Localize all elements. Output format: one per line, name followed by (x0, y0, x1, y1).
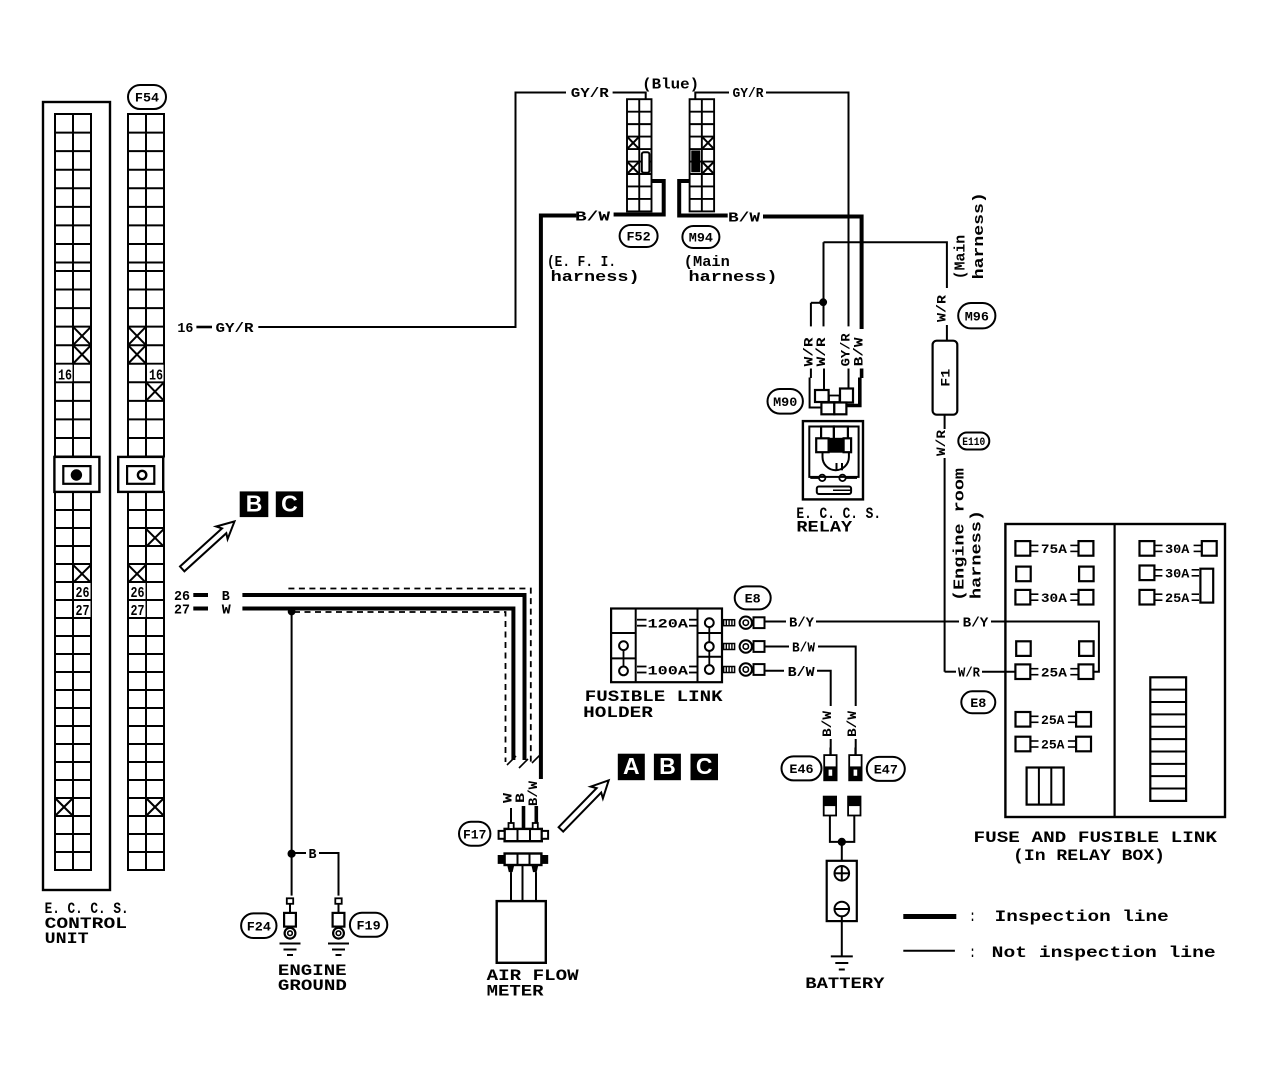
marker box A (618, 753, 644, 780)
fuse 25A (second) (1016, 712, 1092, 728)
E.C.C.S. control unit connector grid (55, 114, 91, 870)
caption Main harness rotated (right) (953, 192, 989, 279)
svg-text:27: 27 (76, 603, 90, 620)
terminal lug row 3 (B/W) (724, 663, 765, 675)
svg-text:30A: 30A (1041, 591, 1067, 606)
pin X marks (F52 left column) (627, 137, 639, 174)
fuse slots row2 left (1016, 567, 1093, 582)
pin X marks rows 3-4 left column (F54) (128, 327, 146, 364)
svg-text:GY/R: GY/R (571, 86, 610, 102)
fuse holder E46 (824, 748, 836, 781)
svg-text:(Engine room: (Engine room (952, 468, 969, 601)
air flow meter connector pins (507, 865, 538, 901)
fusible link 100A (637, 663, 698, 678)
label B (wire 26) (222, 589, 231, 605)
svg-text:B: B (246, 491, 263, 517)
wire B/W hook under F52 (inspection line) (614, 181, 664, 215)
svg-text:C: C (281, 491, 298, 517)
ECCS relay inner box (809, 427, 858, 477)
pin 27 label (control unit) (75, 601, 91, 620)
svg-text:B: B (659, 753, 676, 779)
E.C.C.S. control unit outer box (43, 102, 110, 890)
svg-text:(Blue): (Blue) (642, 77, 699, 94)
arrow to B C markers (180, 521, 235, 571)
air flow meter box (497, 901, 546, 963)
battery box (827, 861, 857, 921)
junction dot W/R bridge (820, 299, 827, 306)
label 27 (wire) (174, 603, 190, 619)
connector M90 bracket left (810, 378, 821, 408)
fusible link holder left column (611, 609, 636, 683)
svg-text:W: W (222, 603, 232, 619)
svg-text:W/R: W/R (935, 295, 950, 322)
marker box B (upper) (240, 491, 268, 517)
wire B/Y from holder (765, 621, 787, 623)
wire GY/R from pin16 up to F52 (258, 93, 566, 328)
svg-text:F19: F19 (357, 918, 381, 933)
connector E46 oval label (782, 756, 822, 780)
ECCS relay outer box (803, 421, 863, 499)
svg-text:harness): harness) (689, 269, 778, 286)
svg-text:W/R: W/R (958, 666, 981, 682)
svg-text:A: A (623, 753, 640, 779)
wire B/W down to E46 (817, 671, 831, 755)
connector F24 oval label (241, 913, 276, 938)
pin X marks rows 3-4 right column (control unit) (73, 327, 91, 364)
caption FUSE AND FUSIBLE LINK (In RELAY BOX) (974, 829, 1218, 865)
ECCS relay coil (823, 452, 849, 470)
wire W from pin27 (inspection line) (242, 609, 513, 761)
fusible link F1 (933, 341, 958, 415)
label B/W rotated (F17 pin) (526, 781, 541, 806)
label B/Y (789, 616, 815, 632)
connector below E46 (824, 797, 836, 816)
svg-text:B/W: B/W (575, 210, 611, 226)
svg-text:16: 16 (177, 321, 193, 337)
wire B/W row3 from holder (765, 670, 785, 672)
connector M94 grid (690, 99, 715, 211)
svg-text:B: B (309, 847, 318, 863)
label W rotated (F17 pin) (501, 793, 516, 803)
fusible link 120A (637, 617, 698, 632)
wire B/W hook under M94 (inspection line) (679, 181, 728, 216)
svg-text:W/R: W/R (814, 337, 829, 366)
F17 pin stubs (511, 806, 536, 829)
svg-text:METER: METER (487, 983, 544, 1001)
svg-text:M94: M94 (689, 231, 713, 246)
svg-text:B/Y: B/Y (789, 616, 815, 632)
svg-text:25A: 25A (1041, 713, 1065, 728)
battery negative terminal (835, 902, 850, 917)
connector E8 oval label (upper) (735, 586, 771, 609)
terminal lug row 2 (B/W) (724, 640, 765, 652)
pin X mark bottom right column (F54) (146, 798, 164, 816)
terminal lug row 1 (B/Y) (724, 617, 765, 629)
ECCS relay middle contacts (816, 438, 851, 452)
label W/R rotated (M90 pin1) (801, 337, 816, 366)
pin X mark (control unit, above pin 26) (73, 565, 91, 583)
svg-text:RELAY: RELAY (796, 519, 852, 537)
label W/R rotated (M90 pin2) (814, 337, 829, 366)
svg-text:harness): harness) (969, 510, 986, 599)
svg-text:100A: 100A (648, 663, 689, 678)
svg-text:F1: F1 (939, 368, 954, 386)
svg-text:GY/R: GY/R (216, 321, 255, 337)
label (Blue) (642, 77, 699, 94)
svg-text:120A: 120A (648, 617, 689, 632)
ECCS relay bottom bar (817, 487, 851, 495)
wire battery to ground (841, 916, 843, 956)
svg-text:E8: E8 (970, 696, 986, 711)
relay block connector (1027, 768, 1064, 805)
svg-text:Inspection line: Inspection line (995, 908, 1169, 926)
pin X marks (M94 right column) (702, 137, 714, 174)
svg-text:F54: F54 (135, 91, 159, 106)
ECCS relay contact circles (810, 475, 857, 481)
label GY/R (top right) (733, 86, 765, 102)
connector E8 oval label (lower) (961, 691, 995, 713)
svg-text:27: 27 (174, 603, 190, 619)
label 26 (wire) (174, 589, 190, 605)
connector M94 oval label (682, 226, 719, 248)
svg-text:25A: 25A (1041, 665, 1067, 680)
harness dashed outline outer (288, 589, 530, 764)
wire stubs into M90 connector (811, 369, 862, 391)
svg-text:B/W: B/W (526, 781, 541, 806)
fuse slots row4 left (1016, 641, 1093, 656)
label W/R rotated (below F1) (934, 430, 949, 456)
fuse holder E47 (849, 748, 861, 781)
svg-text:GROUND: GROUND (278, 977, 347, 995)
marker box C (upper) (276, 491, 302, 517)
pin 27 wire stub (193, 607, 208, 611)
svg-text::: : (970, 944, 976, 962)
wire GY/R from M94 down to ECCS relay (766, 93, 849, 327)
pin X mark left column (F54) (128, 565, 146, 583)
battery positive terminal (835, 866, 850, 881)
svg-text:B/Y: B/Y (963, 616, 989, 632)
pin 26 label (control unit) (75, 583, 91, 602)
junction dot engine ground (288, 850, 295, 857)
svg-text:(Main: (Main (953, 235, 970, 279)
label B rotated (F17 pin) (513, 793, 528, 803)
legend inspection line sample (903, 914, 956, 919)
fuse 75A (1015, 541, 1093, 557)
wire W/R into fuse box (982, 671, 1015, 673)
fuse 25A (right half) (1140, 590, 1200, 606)
connector M96 oval label (958, 303, 995, 328)
svg-text:B/W: B/W (851, 337, 866, 366)
air flow meter connector body (498, 854, 548, 866)
svg-text:harness): harness) (971, 192, 988, 279)
svg-text:C: C (696, 753, 713, 779)
fuse 30A (left half) (1015, 590, 1093, 606)
wire W/R bridge and first drop (811, 303, 823, 327)
svg-text:26: 26 (76, 585, 90, 602)
connector F17 body (499, 823, 548, 841)
caption AIR FLOW METER (487, 967, 579, 1001)
arrow to A B C markers (559, 780, 609, 831)
pin 27 label (F54) (130, 601, 146, 620)
pin slot (F52 right column) (642, 152, 650, 173)
svg-text:30A: 30A (1165, 542, 1190, 557)
wire B/W to ECCS relay (inspection line) (763, 217, 862, 330)
label W/R rotated (above F1) (935, 295, 950, 322)
fuse 30A (right half row2) (1140, 566, 1200, 582)
wire B/W row2 from holder (765, 646, 790, 648)
svg-text:F24: F24 (247, 919, 271, 934)
label W (wire 27) (222, 603, 232, 619)
fusible link holder box (611, 609, 722, 683)
label B/W (left) (575, 210, 611, 226)
label GY/R rotated (M90 pin3) (838, 333, 853, 366)
pin 26 label (F54) (130, 583, 146, 602)
connector M90 bracket right (inspection line) (847, 378, 860, 406)
label B/W (row3) (788, 665, 816, 681)
svg-text:F52: F52 (627, 230, 651, 245)
svg-text:16: 16 (149, 367, 163, 384)
fuse 25A (third) (1016, 737, 1092, 753)
label B (ground branch) (309, 847, 318, 863)
connector F17 oval label (459, 822, 490, 846)
wire B branch to F19 (294, 853, 339, 896)
legend not inspection line text (970, 944, 1216, 962)
label 16 (wire) (177, 321, 193, 337)
connector M90 oval label (768, 389, 803, 414)
svg-text:UNIT: UNIT (45, 930, 89, 948)
svg-text:BATTERY: BATTERY (805, 975, 885, 993)
wire W/R thin from relay area to F1 (824, 242, 947, 288)
ECCS relay top contacts (821, 427, 848, 440)
wire W/R into F1 top (946, 325, 948, 341)
connector latch with locator hole (F54) (118, 457, 163, 492)
fusible link ladder block (1150, 677, 1186, 801)
caption E.F.I. harness (547, 254, 640, 286)
wire B to engine ground (291, 612, 293, 854)
E.C.C.S. CONTROL UNIT caption (45, 900, 129, 948)
svg-text:B/W: B/W (820, 711, 835, 737)
svg-text:16: 16 (58, 367, 72, 384)
legend not inspection line sample (903, 950, 955, 952)
fuse box divider (1113, 524, 1115, 817)
connector F52 grid (627, 99, 652, 211)
svg-text:E110: E110 (962, 437, 985, 449)
fuse box outer (1005, 524, 1225, 817)
connector latch with locator dot (control unit) (54, 457, 99, 492)
svg-text:Not inspection line: Not inspection line (992, 944, 1216, 962)
connector below E47 (848, 797, 860, 816)
svg-text:25A: 25A (1165, 591, 1190, 606)
svg-text:W/R: W/R (934, 430, 949, 456)
wire GY/R into F52 top (613, 93, 646, 100)
svg-text:26: 26 (131, 585, 145, 602)
marker box B (lower) (654, 753, 680, 780)
svg-text:B/W: B/W (792, 641, 816, 657)
svg-text:FUSE AND FUSIBLE LINK: FUSE AND FUSIBLE LINK (974, 829, 1218, 847)
wire M94 top to GY/R (695, 93, 729, 100)
connector E110 oval label (958, 433, 989, 450)
connector M90 terminal squares (815, 389, 853, 415)
pin 16 label (F54) (148, 365, 164, 385)
wire B/W corner to air flow meter (inspection line) (541, 216, 577, 780)
label B/W rotated (E46 drop) (820, 711, 835, 737)
svg-text:HOLDER: HOLDER (583, 704, 653, 722)
label GY/R (top left) (571, 86, 610, 102)
pin filled slot (M94 left column) (692, 151, 700, 171)
svg-text:27: 27 (131, 603, 145, 620)
svg-text:F17: F17 (463, 827, 486, 842)
wire B/W down to E47 (818, 647, 856, 756)
svg-text:(In RELAY BOX): (In RELAY BOX) (1013, 847, 1165, 865)
wire B/Y to fuse box (816, 622, 1099, 672)
battery ground symbol (831, 956, 853, 969)
svg-text:75A: 75A (1041, 542, 1067, 557)
fuse 25A (W/R) (1015, 664, 1093, 680)
junction dot on wire 27 (288, 608, 295, 615)
hatch marks on wires (507, 754, 541, 768)
connector E47 oval label (867, 757, 905, 781)
svg-text:E46: E46 (789, 762, 813, 777)
svg-text:GY/R: GY/R (733, 86, 765, 102)
fuse 30A (right half row1) (1140, 541, 1217, 557)
label W/R (fuse box) (958, 666, 981, 682)
label B/W (row2) (792, 641, 816, 657)
svg-text:M90: M90 (773, 395, 797, 410)
label GY/R (pin16 wire) (216, 321, 255, 337)
wire B from pin26 (inspection line) (242, 595, 524, 760)
connector F19 oval label (350, 913, 387, 937)
svg-text:30A: 30A (1165, 567, 1190, 582)
svg-text:harness): harness) (551, 269, 640, 286)
pin X mark below 16 (F54) (146, 382, 164, 401)
svg-text:B/W: B/W (788, 665, 816, 681)
pin X mark right column (F54) (146, 529, 164, 547)
svg-text:B/W: B/W (728, 211, 761, 227)
svg-text:25A: 25A (1041, 738, 1065, 753)
caption ENGINE GROUND (278, 962, 347, 995)
label B/Y (at fuse box) (963, 616, 989, 632)
svg-text:E47: E47 (874, 763, 898, 778)
harness dashed outline inner (294, 612, 506, 762)
marker box C (lower) (691, 753, 718, 780)
connector F52 oval label (620, 225, 658, 247)
pin X mark bottom left column (control unit) (55, 798, 73, 816)
pin 16 wire stub (196, 326, 212, 329)
caption Main harness (middle) (684, 254, 778, 286)
connector F54 oval label (128, 85, 166, 109)
legend inspection line text (970, 908, 1169, 926)
engine ground terminal F19 (328, 898, 349, 955)
wire W/R vertical (second W/R drop) (823, 242, 825, 326)
svg-text:E8: E8 (745, 592, 761, 607)
wire W/R below F1 (945, 415, 956, 672)
svg-text::: : (970, 908, 976, 926)
pin 26 wire stub (193, 593, 208, 597)
caption E.C.C.S. RELAY (796, 505, 881, 537)
fusible link holder right column (698, 609, 723, 683)
svg-text:B/W: B/W (845, 711, 860, 737)
caption BATTERY (805, 975, 885, 993)
label B/W (right) (728, 211, 761, 227)
label B/W rotated (M90 pin4) (851, 337, 866, 366)
F54 connector grid (128, 114, 164, 870)
caption Engine room harness rotated (952, 468, 986, 601)
wire down to F24 (291, 854, 293, 896)
pin 16 label (control unit) (57, 365, 73, 385)
label B/W rotated (E47 drop) (845, 711, 860, 737)
fusible link tall block (1200, 569, 1213, 603)
wires to battery (830, 816, 854, 861)
caption FUSIBLE LINK HOLDER (583, 688, 723, 722)
svg-text:M96: M96 (965, 309, 989, 324)
engine ground terminal F24 (280, 898, 301, 955)
